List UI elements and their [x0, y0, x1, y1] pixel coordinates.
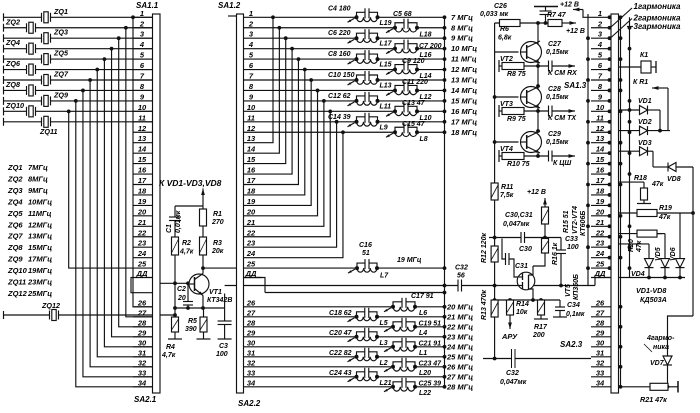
wire VT1 emitter	[202, 296, 204, 309]
wire SA2.2 pin 31 to tank	[262, 356, 357, 358]
switch SA1.2 body	[218, 1, 244, 393]
junction SA1.3 stub 19	[608, 204, 612, 208]
svg-text:23: 23	[246, 239, 256, 248]
svg-text:7МГц: 7МГц	[28, 163, 48, 172]
svg-text:28: 28	[246, 318, 256, 327]
svg-text:12: 12	[247, 124, 256, 133]
switch SA1.1 pin 16	[133, 166, 153, 175]
svg-text:L7: L7	[380, 273, 389, 280]
capacitor C28(0.15mk)	[546, 86, 569, 117]
svg-text:56: 56	[457, 273, 465, 280]
switch SA1.1 pin 1	[133, 9, 153, 18]
switch SA1.1 pin 25	[133, 260, 153, 269]
crystal ZQ8	[4, 80, 153, 96]
switch SA1.2 pin 26	[244, 298, 263, 307]
wire C32 row	[483, 358, 591, 360]
svg-text:L13: L13	[380, 83, 392, 90]
switch SA1.1 pin 18	[133, 186, 153, 195]
junction SA1.3 pin 17	[586, 183, 590, 187]
switch SA1.3 pin 3	[591, 30, 611, 39]
switch SA1.3 pin 29	[591, 328, 611, 337]
svg-text:29: 29	[137, 328, 147, 337]
wire R12 to bus	[493, 262, 497, 300]
label 21 MHz	[446, 312, 473, 321]
junction bus2 pin 9	[628, 99, 632, 103]
svg-text:0,15мк: 0,15мк	[546, 49, 569, 56]
junction bus1 pin 32	[619, 365, 623, 369]
wire ZQ7 to pin 32	[88, 78, 152, 367]
junction SA1.3 stub 14	[608, 151, 612, 155]
tank C15/L8	[386, 121, 428, 143]
switch SA1.1 pin 27	[133, 308, 153, 317]
switch SA1.1 pin 14	[133, 145, 153, 154]
svg-text:34: 34	[138, 378, 147, 387]
svg-text:SA2.1: SA2.1	[134, 395, 157, 404]
svg-text:C30: C30	[519, 246, 532, 253]
junction bus1 pin 3	[619, 36, 623, 40]
svg-text:К R1: К R1	[633, 79, 648, 86]
switch SA1.3 pin 27	[591, 308, 611, 317]
wire ZQ5 to pin 30	[103, 57, 153, 347]
svg-text:КД503А: КД503А	[640, 295, 667, 304]
switch SA1.3 pin 14	[591, 145, 611, 154]
junction SA1.3 pin 21	[586, 224, 590, 228]
svg-text:13: 13	[138, 134, 147, 143]
svg-text:VD1-VD8: VD1-VD8	[636, 286, 666, 295]
wire SA2.2 pin 32 to tank	[262, 366, 393, 368]
capacitor C29(0.15mk)	[546, 131, 569, 162]
svg-text:C27: C27	[548, 41, 562, 48]
svg-text:+12 В: +12 В	[560, 1, 579, 8]
junction SA1.3 stub 17	[608, 183, 612, 187]
svg-text:VD8: VD8	[667, 176, 681, 183]
switch SA1.3 pin DD	[591, 269, 611, 278]
junction SA1.3 stub 9	[608, 99, 612, 103]
svg-text:ZQ5: ZQ5	[7, 209, 23, 218]
svg-text:9 МГц: 9 МГц	[451, 34, 473, 43]
resistor R17(200)	[532, 300, 548, 339]
wire DD right	[619, 276, 686, 280]
svg-text:27: 27	[246, 308, 256, 317]
svg-text:15: 15	[247, 155, 256, 164]
wire tank L1 to bus	[415, 345, 446, 349]
wire tank L16 to bus	[417, 47, 446, 51]
wire tank L4 to bus	[415, 325, 446, 329]
switch SA1.1 pin 30	[133, 338, 153, 347]
transistor VT4	[500, 131, 542, 153]
wire SA1.2 pin 8 to tank	[262, 89, 395, 91]
junction SA1.3 stub 16	[608, 172, 612, 176]
resistor R15(51)	[542, 207, 571, 233]
svg-text:14: 14	[138, 145, 147, 154]
switch SA1.2 pin 3	[244, 30, 263, 39]
switch SA1.3 pin 33	[591, 368, 611, 377]
wire tank L9 to bus	[378, 120, 447, 124]
switch SA1.2 pin 30	[244, 338, 263, 347]
crystal ZQ9	[4, 90, 153, 106]
svg-text:51: 51	[362, 250, 370, 257]
junction SA1.3 stub 7	[608, 78, 612, 82]
resistor R13(470k)	[481, 290, 498, 320]
wire SA1.2 pin 1 to pin 13	[262, 15, 275, 142]
switch SA1.1 pin 29	[133, 328, 153, 337]
wire SA1.2 pin 6 to tank	[262, 69, 395, 71]
resistor R10 75	[499, 150, 548, 168]
wire base VT2	[495, 51, 519, 53]
wire SA1.2 pin 9 to pin 21	[262, 99, 326, 226]
junction SA1.3 pin 3	[586, 36, 590, 40]
svg-text:32: 32	[247, 358, 256, 367]
crystal ZQ3	[4, 28, 153, 44]
junction bus1 pin 1	[619, 15, 623, 19]
switch SA1.3 pin 8	[591, 82, 611, 91]
svg-text:12: 12	[596, 124, 605, 133]
wire tank L21 to bus	[377, 375, 446, 379]
switch SA1.3 pin 20	[591, 207, 611, 216]
svg-text:47к: 47к	[658, 214, 671, 221]
bus harmonics 2	[629, 17, 631, 277]
resistor R6(6.8k)	[498, 20, 520, 42]
wire tank L13 to bus	[378, 78, 447, 82]
wire R15 to row	[543, 224, 547, 239]
svg-text:4,7к: 4,7к	[179, 249, 194, 256]
svg-text:13МГц: 13МГц	[28, 232, 52, 241]
svg-text:SA1.3: SA1.3	[564, 81, 587, 90]
junction SA1.3 pin 15	[586, 162, 590, 166]
svg-text:12: 12	[138, 124, 147, 133]
svg-text:10 МГц: 10 МГц	[451, 44, 477, 53]
junction bus1 pin 24	[619, 256, 623, 260]
switch SA1.1 pin 5	[133, 51, 153, 60]
switch SA1.2 pin 31	[244, 348, 263, 357]
junction SA1.3 stub 24	[608, 256, 612, 260]
label 17 MHz	[451, 117, 477, 126]
label 12 MHz	[451, 65, 477, 74]
switch SA1.1 pin 31	[133, 348, 153, 357]
svg-text:32: 32	[138, 358, 147, 367]
svg-text:L17: L17	[380, 41, 393, 48]
svg-text:17: 17	[138, 176, 147, 185]
junction SA1.3 stub 15	[608, 162, 612, 166]
label +12V mid	[527, 189, 547, 207]
resistor R12(120k)	[481, 233, 498, 263]
switch SA1.1 pin 8	[133, 82, 153, 91]
svg-text:28: 28	[595, 318, 605, 327]
ground R5	[197, 332, 211, 339]
svg-text:L6: L6	[419, 310, 427, 317]
label 7 MHz	[451, 13, 473, 22]
svg-text:20к: 20к	[211, 248, 224, 255]
diode VD6	[670, 213, 685, 278]
svg-text:L2: L2	[380, 360, 388, 367]
resistor R19(47k)	[619, 205, 695, 221]
wire tank L18 to bus	[417, 26, 446, 30]
junction bus1 pin 30	[619, 345, 623, 349]
svg-text:11: 11	[138, 113, 146, 122]
wire SA1.2 pin 11 to tank	[262, 121, 357, 123]
junction SA1.3 stub 10	[608, 109, 612, 113]
junction SA1.3 stub 13	[608, 141, 612, 145]
junction bus1 pin 5	[619, 57, 623, 61]
wire C1 top link	[175, 206, 203, 217]
resistor R11(7.5k)	[491, 182, 514, 200]
capacitor C3(100)	[216, 294, 232, 359]
diode VD7	[650, 356, 672, 389]
svg-text:270: 270	[211, 219, 224, 226]
svg-text:C14 39: C14 39	[328, 114, 351, 121]
switch SA1.2 pin 33	[244, 368, 263, 377]
svg-text:390: 390	[185, 326, 197, 333]
wire VT3 collector to rail	[0, 0, 1, 1]
resistor R14(10k)	[507, 300, 529, 316]
svg-text:0,033 мк: 0,033 мк	[480, 11, 509, 18]
wire R16 to drain	[533, 253, 545, 266]
junction SA1.3 pin 25	[586, 266, 590, 270]
wire SA1.2 pin 9 to tank	[262, 100, 357, 102]
wire VT4 collector to rail	[0, 0, 1, 1]
svg-text:R1: R1	[213, 211, 222, 218]
svg-text:0,01мк: 0,01мк	[175, 210, 182, 233]
capacitor C30	[519, 232, 532, 253]
tank C21/L1	[384, 338, 441, 357]
resistor R16(1k)	[542, 238, 560, 266]
svg-text:15 МГц: 15 МГц	[451, 96, 477, 105]
switch SA1.1 pin 11	[133, 113, 153, 122]
svg-text:ZQ7: ZQ7	[7, 232, 23, 241]
junction SA1.3 stub 20	[608, 214, 612, 218]
wire tank L15 to bus	[378, 57, 447, 61]
svg-text:R13 470к: R13 470к	[481, 290, 488, 320]
label SA1.3	[564, 81, 587, 90]
wire ZQ8 to pin 33	[81, 89, 152, 377]
wire tank L5 to bus	[377, 315, 446, 319]
svg-text:19МГц: 19МГц	[28, 266, 52, 275]
tank C23/L20	[384, 358, 442, 377]
switch SA1.2 pin 23	[244, 239, 263, 248]
switch SA1.1 pin 4	[133, 40, 153, 49]
bus line 2 (y=292.5)	[265, 291, 446, 295]
junction SA1.3 stub 22	[608, 235, 612, 239]
svg-text:К СМ ТХ: К СМ ТХ	[548, 115, 577, 122]
tank C6/L17	[328, 29, 393, 48]
switch SA1.3 pin 24	[591, 249, 611, 258]
svg-text:C18 62: C18 62	[329, 310, 352, 317]
wire 3rd harmonic	[627, 26, 633, 28]
svg-text:25: 25	[246, 260, 256, 269]
junction SA1.3 stub 6	[608, 68, 612, 72]
svg-text:20: 20	[595, 207, 605, 216]
wire ZQ1 to pin 26	[131, 15, 152, 306]
junction bus2 pin 12	[628, 130, 632, 134]
wire collector chain arrow	[201, 189, 205, 210]
wire SA1.2 pin 1 to tank	[262, 16, 357, 18]
svg-text:14: 14	[596, 145, 605, 154]
junction SA1.3 stub 2	[608, 26, 612, 30]
svg-text:+12 В: +12 В	[566, 28, 585, 35]
svg-text:C4 180: C4 180	[328, 5, 351, 12]
svg-text:16: 16	[247, 166, 256, 175]
junction SA1.3 pin 5	[586, 57, 590, 61]
svg-text:24: 24	[595, 249, 605, 258]
capacitor C1(0.01mk)	[166, 210, 182, 237]
label SA2.1	[134, 395, 157, 404]
switch SA1.2 pin 17	[244, 176, 263, 185]
svg-text:27 МГц: 27 МГц	[446, 372, 473, 381]
wire bias rail	[173, 255, 177, 317]
svg-text:19: 19	[247, 197, 256, 206]
svg-text:ZQ8: ZQ8	[5, 80, 20, 89]
junction bus2 pin 14	[628, 151, 632, 155]
svg-text:C33: C33	[565, 236, 578, 243]
transistor VT1	[189, 274, 232, 305]
switch SA1.2 pin 15	[244, 155, 263, 164]
switch SA1.2 pin 10	[244, 103, 263, 112]
tank C12/L11	[328, 92, 391, 111]
tank C16/L7	[348, 242, 389, 280]
svg-text:ZQ3: ZQ3	[7, 186, 23, 195]
legend crystal frequencies	[7, 163, 52, 298]
tank C10/L13	[328, 71, 392, 90]
junction bus2 pin 4	[628, 47, 632, 51]
svg-text:22: 22	[595, 228, 605, 237]
svg-text:L8: L8	[420, 136, 428, 143]
switch SA1.2 pin 8	[244, 82, 263, 91]
svg-text:0,047мк: 0,047мк	[503, 221, 530, 228]
junction bus2 pin 23	[628, 245, 632, 249]
wire SA1.2 pin 12 to tank	[262, 131, 395, 133]
switch SA1.1 pin 9	[133, 92, 153, 101]
svg-text:0,1мк: 0,1мк	[566, 311, 585, 318]
svg-text:30: 30	[138, 338, 147, 347]
label 4 harmonic	[644, 335, 675, 352]
switch SA1.3 pin 10	[591, 103, 611, 112]
label 18 MHz	[451, 128, 477, 137]
junction SA1.3 stub 21	[608, 224, 612, 228]
junction bus2 pin 25	[628, 266, 632, 270]
svg-text:14: 14	[247, 145, 256, 154]
svg-text:19: 19	[596, 197, 605, 206]
svg-text:14 МГц: 14 МГц	[451, 86, 477, 95]
wire base VT3	[495, 96, 519, 98]
svg-text:20: 20	[177, 295, 186, 302]
svg-text:R19: R19	[659, 205, 672, 212]
svg-text:11: 11	[596, 113, 604, 122]
svg-text:2: 2	[248, 19, 254, 28]
svg-text:16 МГц: 16 МГц	[451, 107, 477, 116]
wire ZQ4 to pin 29	[110, 47, 153, 337]
wire ZQ2 to pin 27	[124, 26, 153, 317]
wire +12 top row	[495, 22, 548, 24]
svg-text:C29: C29	[548, 131, 561, 138]
svg-text:31: 31	[247, 348, 255, 357]
junction bus1 pin 34	[619, 385, 623, 389]
svg-text:R7 47: R7 47	[547, 12, 567, 19]
svg-text:7 МГц: 7 МГц	[451, 13, 473, 22]
resistor R9 75	[499, 105, 548, 123]
svg-text:ZQ9: ZQ9	[7, 255, 23, 264]
junction VT2 collector	[0, 0, 1, 1]
resistor R5(390)	[185, 308, 207, 333]
svg-text:VD6: VD6	[670, 247, 677, 261]
rail base bias	[494, 23, 496, 182]
switch SA1.3 pin 26	[591, 298, 611, 307]
svg-text:К VD1-VD3,VD8: К VD1-VD3,VD8	[159, 178, 222, 188]
svg-text:21: 21	[246, 218, 255, 227]
tank C9/L14	[386, 58, 432, 80]
svg-text:ника: ника	[653, 344, 669, 351]
svg-text:100: 100	[216, 351, 228, 358]
svg-text:15МГц: 15МГц	[28, 243, 52, 252]
wire SA2.2 pin 29 to tank	[262, 336, 357, 338]
label 11 MHz	[451, 55, 477, 64]
svg-text:10МГц: 10МГц	[28, 197, 52, 206]
label 25 MHz	[446, 352, 473, 361]
label 20 MHz	[446, 302, 473, 311]
svg-text:4: 4	[597, 40, 603, 49]
switch SA1.1 pin 26	[133, 298, 153, 307]
svg-text:L20: L20	[419, 370, 431, 377]
switch SA1.3 pin 2	[591, 19, 611, 28]
svg-text:22 МГц: 22 МГц	[446, 322, 473, 331]
junction VT4 collector	[536, 129, 540, 133]
switch SA1.3 pin 15	[591, 155, 611, 164]
switch SA1.3 pin 28	[591, 318, 611, 327]
svg-text:20: 20	[137, 207, 147, 216]
svg-text:30: 30	[247, 338, 256, 347]
svg-text:R3: R3	[213, 240, 222, 247]
tank C4/L19	[328, 5, 392, 27]
svg-text:SA2.2: SA2.2	[238, 399, 261, 408]
wire source row	[493, 298, 560, 302]
svg-text:24: 24	[137, 249, 147, 258]
svg-text:10: 10	[247, 103, 256, 112]
svg-text:23: 23	[137, 239, 147, 248]
svg-text:ZQ4: ZQ4	[7, 197, 23, 206]
tank C8/L15	[328, 50, 392, 69]
svg-text:10: 10	[138, 103, 147, 112]
wire SA1.2 pin 5 to pin 17	[262, 57, 300, 184]
svg-text:SA2.3: SA2.3	[560, 340, 583, 349]
junction bus1 pin 15	[619, 162, 623, 166]
svg-text:6,8к: 6,8к	[498, 35, 512, 42]
svg-text:+12 В: +12 В	[527, 189, 546, 196]
resistor R3(20k)	[200, 237, 224, 255]
svg-text:19: 19	[138, 197, 147, 206]
label 2 harmonic	[633, 13, 682, 22]
switch SA1.2 pin 28	[244, 318, 263, 327]
svg-text:22: 22	[246, 228, 256, 237]
bus SA1.3 left	[587, 14, 589, 285]
switch SA1.1 pin 12	[133, 124, 153, 133]
svg-text:C10 150: C10 150	[328, 72, 355, 79]
diode VD5	[655, 234, 670, 278]
wire SA1.2 pin 11 to pin 23	[262, 120, 339, 247]
svg-text:L9: L9	[380, 124, 388, 131]
switch SA1.2 pin 32	[244, 358, 263, 367]
switch SA1.2 pin 14	[244, 145, 263, 154]
switch SA1.2 pin DD	[244, 269, 266, 293]
switch SA1.2 pin 5	[244, 51, 263, 60]
svg-text:C32: C32	[506, 370, 519, 377]
switch SA1.1 body	[136, 1, 160, 393]
svg-text:C16: C16	[359, 242, 372, 249]
svg-text:23 МГц: 23 МГц	[446, 332, 473, 341]
tank C19/L4	[384, 318, 441, 337]
tank C20/L3	[329, 328, 388, 347]
svg-text:R4: R4	[166, 344, 175, 351]
wire 2nd harmonic	[611, 19, 632, 38]
svg-text:7,5к: 7,5к	[500, 192, 514, 199]
